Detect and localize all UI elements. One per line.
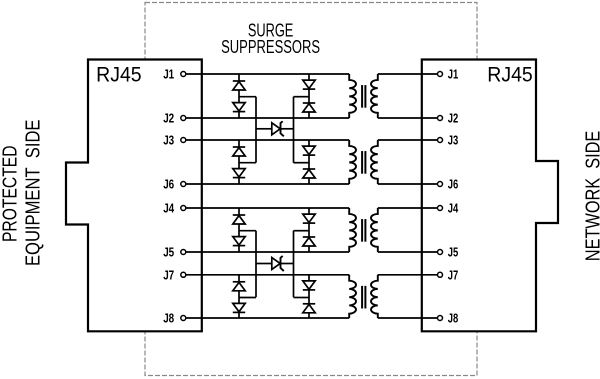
wire chain L1 bottom: [238, 112, 240, 118]
wire chain L2 top: [238, 140, 240, 147]
pin terminal J1 left: [181, 72, 186, 77]
wire J2 left: [186, 117, 349, 119]
wire branch R1: [294, 96, 310, 98]
wire J2 right: [378, 117, 437, 119]
pin terminal J5 right: [438, 250, 443, 255]
wire J6 left: [186, 183, 349, 185]
pin terminal J1 right: [438, 72, 443, 77]
label SURGE SUPPRESSORS: [221, 21, 320, 58]
diode D3a (cathode up): [233, 215, 245, 224]
svg-text:SUPPRESSORS: SUPPRESSORS: [221, 37, 320, 57]
svg-text:J8: J8: [163, 311, 174, 326]
svg-text:PROTECTED: PROTECTED: [0, 146, 21, 243]
svg-text:RJ45: RJ45: [487, 62, 533, 87]
pin terminal J3 left: [181, 138, 186, 143]
wire chain R2 top: [308, 140, 310, 146]
wire chain L1 mid: [238, 90, 240, 103]
pin terminal J7 left: [181, 272, 186, 277]
transformer T1: [349, 74, 378, 118]
svg-text:J3: J3: [163, 133, 174, 148]
diode D2d (cathode up): [303, 169, 315, 178]
surge suppressor enclosure (dashed): [145, 3, 477, 376]
wire chain L2 bottom: [238, 178, 240, 184]
wire bus left top group: [255, 97, 257, 163]
wire branch L2: [239, 162, 256, 164]
pin terminal J5 left: [181, 250, 186, 255]
pin terminal J6 left: [181, 182, 186, 187]
wire chain L3 top: [238, 208, 240, 215]
wire J7 left: [186, 274, 349, 276]
diode D4d (cathode up): [303, 304, 315, 313]
svg-text:J7: J7: [448, 267, 459, 282]
wire chain L4 bottom: [238, 312, 240, 318]
svg-text:J2: J2: [163, 111, 174, 126]
diode D3c (cathode down): [303, 214, 315, 223]
wire chain L3 bottom: [238, 246, 240, 252]
wire branch L1: [239, 96, 256, 98]
wire chain R1 bottom: [308, 112, 310, 118]
wire J8 right: [378, 317, 437, 319]
diode D2c (cathode down): [303, 146, 315, 155]
wire branch R2: [294, 162, 310, 164]
wire chain R2 bottom: [308, 178, 310, 184]
diode D1c (cathode down): [303, 80, 315, 89]
wire bus right top group: [293, 97, 295, 163]
pin terminal J3 right: [438, 138, 443, 143]
pin terminal J8 right: [438, 316, 443, 321]
pin terminal J8 left: [181, 316, 186, 321]
diode D1d (cathode up): [303, 103, 315, 112]
svg-text:J4: J4: [448, 201, 459, 216]
svg-text:EQUIPMENT SIDE: EQUIPMENT SIDE: [22, 120, 44, 267]
wire J4 right: [378, 207, 437, 209]
diode D1b (cathode down): [233, 103, 245, 112]
diode D1a (cathode up): [233, 81, 245, 90]
wire branch L3: [239, 230, 256, 232]
pin terminal J4 right: [438, 206, 443, 211]
wire chain R3 top: [308, 208, 310, 214]
svg-text:J5: J5: [163, 245, 174, 260]
svg-text:J6: J6: [448, 177, 459, 192]
TVS diode Z1 (horizontal, cathode right): [256, 121, 294, 136]
svg-text:J3: J3: [448, 133, 459, 148]
wire branch L4: [239, 297, 256, 299]
diode D3d (cathode up): [303, 237, 315, 246]
wire J3 left: [186, 139, 349, 141]
wire chain R4 mid: [308, 290, 310, 304]
pin terminal J7 right: [438, 272, 443, 277]
transformer T3: [349, 208, 378, 252]
pin terminal J2 left: [181, 116, 186, 121]
pin terminal J2 right: [438, 116, 443, 121]
diode D2a (cathode up): [233, 147, 245, 156]
wire J4 left: [186, 207, 349, 209]
wire J6 right: [378, 183, 437, 185]
svg-text:J1: J1: [448, 67, 459, 82]
pin terminal J4 left: [181, 206, 186, 211]
transformer T2: [349, 140, 378, 184]
wire chain L2 mid: [238, 156, 240, 169]
wire bus right bottom group: [293, 231, 295, 298]
wire chain R3 mid: [308, 223, 310, 237]
transformer T4: [349, 275, 378, 318]
svg-text:J8: J8: [448, 311, 459, 326]
RJ45 connector J-right (network side): [422, 60, 558, 332]
diode D4c (cathode down): [303, 281, 315, 290]
diode D4b (cathode down): [233, 303, 245, 312]
wire J5 left: [186, 251, 349, 253]
wire J5 right: [378, 251, 437, 253]
svg-text:J6: J6: [163, 177, 174, 192]
wire J8 left: [186, 317, 349, 319]
svg-text:J2: J2: [448, 111, 459, 126]
wire J7 right: [378, 274, 437, 276]
wire chain L1 top: [238, 74, 240, 81]
RJ45 connector J-left (protected equipment side): [66, 60, 202, 332]
wire chain L4 mid: [238, 291, 240, 304]
diode D2b (cathode down): [233, 169, 245, 178]
wire chain R4 top: [308, 275, 310, 281]
svg-text:J5: J5: [448, 245, 459, 260]
wire branch R4: [294, 297, 310, 299]
wire branch R3: [294, 230, 310, 232]
svg-text:J1: J1: [163, 67, 174, 82]
svg-text:J4: J4: [163, 201, 175, 216]
wire J1 left: [186, 73, 349, 75]
svg-text:RJ45: RJ45: [96, 62, 142, 87]
wire chain R1 mid: [308, 89, 310, 103]
wire chain L4 top: [238, 275, 240, 282]
wire chain R2 mid: [308, 155, 310, 169]
wire chain L3 mid: [238, 224, 240, 237]
pin terminal J6 right: [438, 182, 443, 187]
wire bus left bottom group: [255, 231, 257, 298]
TVS diode Z2 (horizontal, cathode right): [256, 256, 294, 271]
svg-text:J7: J7: [163, 267, 174, 282]
wire chain R4 bottom: [308, 313, 310, 318]
wire J1 right: [378, 73, 437, 75]
wire chain R1 top: [308, 74, 310, 80]
label PROTECTED EQUIPMENT SIDE: [0, 120, 44, 267]
wire J3 right: [378, 139, 437, 141]
diode D4a (cathode up): [233, 282, 245, 291]
wire chain R3 bottom: [308, 246, 310, 252]
svg-text:NETWORK SIDE: NETWORK SIDE: [582, 131, 600, 262]
diode D3b (cathode down): [233, 237, 245, 246]
